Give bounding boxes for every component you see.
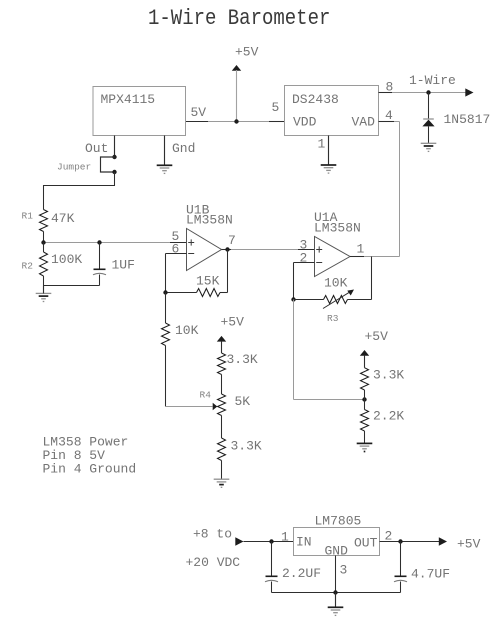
svg-text:5V: 5V [191, 105, 207, 120]
svg-text:DS2438: DS2438 [292, 92, 339, 107]
svg-text:1N5817: 1N5817 [444, 112, 491, 127]
svg-text:+8 to: +8 to [193, 527, 232, 542]
svg-text:5K: 5K [235, 394, 251, 409]
svg-text:LM358N: LM358N [314, 221, 361, 236]
svg-text:6: 6 [172, 242, 180, 257]
svg-text:LM7805: LM7805 [315, 514, 362, 529]
svg-text:VDD: VDD [293, 115, 317, 130]
svg-text:1: 1 [281, 530, 289, 545]
svg-text:R2: R2 [22, 261, 34, 272]
svg-text:3.3K: 3.3K [373, 368, 404, 383]
svg-text:GND: GND [325, 544, 349, 559]
svg-text:R3: R3 [327, 313, 339, 324]
svg-text:1UF: 1UF [112, 258, 135, 273]
svg-text:7: 7 [228, 233, 236, 248]
svg-text:4.7UF: 4.7UF [411, 567, 450, 582]
svg-text:1: 1 [318, 137, 326, 152]
svg-text:3.3K: 3.3K [227, 352, 258, 367]
svg-text:1-Wire Barometer: 1-Wire Barometer [148, 7, 330, 32]
svg-text:+20 VDC: +20 VDC [186, 555, 241, 570]
svg-text:Out: Out [85, 141, 108, 156]
svg-text:3: 3 [340, 563, 348, 578]
svg-text:VAD: VAD [352, 115, 376, 130]
svg-text:R4: R4 [200, 390, 212, 401]
svg-text:Gnd: Gnd [172, 141, 195, 156]
svg-text:2.2UF: 2.2UF [282, 566, 321, 581]
svg-text:MPX4115: MPX4115 [101, 92, 156, 107]
svg-text:2.2K: 2.2K [373, 409, 404, 424]
svg-text:IN: IN [296, 535, 312, 550]
svg-text:8: 8 [386, 80, 394, 95]
svg-text:5: 5 [272, 100, 280, 115]
svg-text:4: 4 [385, 108, 393, 123]
svg-text:1: 1 [357, 242, 365, 257]
svg-text:Jumper: Jumper [57, 162, 91, 173]
svg-text:2: 2 [385, 529, 393, 544]
svg-text:+5V: +5V [221, 315, 245, 330]
svg-text:OUT: OUT [354, 536, 378, 551]
svg-text:Pin 4 Ground: Pin 4 Ground [43, 462, 137, 477]
svg-text:1-Wire: 1-Wire [409, 73, 456, 88]
svg-text:R1: R1 [22, 211, 34, 222]
svg-text:10K: 10K [324, 276, 348, 291]
svg-text:+5V: +5V [365, 329, 389, 344]
svg-text:3.3K: 3.3K [231, 439, 262, 454]
svg-text:LM358N: LM358N [186, 213, 233, 228]
svg-text:15K: 15K [196, 274, 220, 289]
svg-text:+5V: +5V [457, 537, 481, 552]
svg-text:100K: 100K [51, 252, 82, 267]
svg-text:47K: 47K [51, 211, 75, 226]
svg-text:2: 2 [300, 251, 308, 266]
svg-text:+5V: +5V [235, 45, 259, 60]
svg-text:10K: 10K [175, 323, 199, 338]
